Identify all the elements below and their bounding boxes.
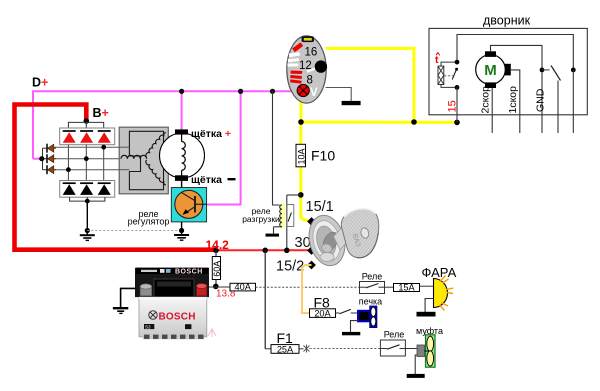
ground battery [113,308,128,313]
rectifier positive diode pack VD1-VD3 [60,128,115,145]
svg-text:M: M [484,62,497,79]
svg-text:BOSCH: BOSCH [159,312,196,323]
fuse 20A [310,308,336,318]
wire brush- to regulator [181,181,183,234]
wire rectifier negative bus [70,197,105,201]
wire D+ bus (magenta) [33,91,297,204]
svg-text:t: t [435,54,439,66]
node unload relay tap [284,248,290,254]
exciter diode bus [43,148,48,170]
fuse 25A [265,344,303,354]
wire exciter-diode feed (magenta to node) [33,158,41,160]
wire ground link (dotted) [87,230,181,232]
node D+/regulator junction [238,89,243,94]
rectifier negative diode pack VD4-VD6 [60,181,115,198]
rotor (field winding) [160,133,205,178]
node D+/relay-coil junction [270,89,275,94]
wiper thermo relay coil [438,62,456,87]
wire motor 2скор lead [491,88,493,133]
svg-text:60A: 60A [212,261,222,277]
node alternator ground [85,228,90,233]
svg-text:40A: 40A [235,282,252,292]
ground voltmeter [342,101,361,105]
wiper motor M [476,51,511,88]
ignition lock terminal 30 [307,246,316,255]
wire B+ thick red [15,105,219,250]
svg-text:Реле: Реле [362,272,383,282]
clutch fan [425,335,436,367]
svg-text:ФАРА: ФАРА [422,265,457,280]
clutch relay K2 [380,340,405,356]
svg-text:10A: 10A [296,148,306,164]
svg-text:BOSCH: BOSCH [175,269,203,276]
ground headlight [417,312,436,317]
rotor coil [182,142,186,171]
node D+/brush junction [179,89,184,94]
wire motor GND lead [491,45,543,133]
brush positive [175,129,188,134]
unload relay coil (реле разгрузки) [274,204,286,234]
node yellow-voltfeed [411,119,417,125]
ground heater [342,332,360,335]
voltmeter needle hub [315,60,327,72]
clutch fan hub [417,345,425,357]
svg-text:D+: D+ [32,76,48,90]
svg-text:15/1: 15/1 [306,199,334,215]
node yellow-wiper [454,120,460,126]
svg-text:печка: печка [359,296,382,306]
node F10/relay junction [298,192,304,198]
node negative bus center [85,199,90,204]
wire battery plus to 40A [207,286,230,288]
fuse F10 10A [296,144,306,167]
stator coil L2 [146,133,166,158]
wire phase columns [68,145,103,181]
ground clutch [407,374,425,378]
wire voltmeter ground [326,88,352,102]
ignition lock with key [304,209,379,270]
node battery plus [213,284,219,290]
charge warning lamp [297,84,309,96]
wiper unit box [429,28,587,114]
node yellow-F10 [298,119,304,125]
fuse 40A [230,282,256,292]
exciter diode VD7 [47,144,56,153]
node phase1-column3 [101,145,106,150]
svg-text:1скор: 1скор [507,86,519,114]
wire ignition feed yellow top [326,48,414,122]
svg-text:25A: 25A [277,344,294,354]
wire clutch ground [415,355,417,374]
transistor VT1 [175,190,207,218]
wiper speed switch [540,66,576,134]
fuse 60A [212,250,222,287]
wire motor 1скор lead [511,70,520,133]
svg-text:щётка: щётка [191,174,222,186]
wire heater ground [351,321,359,332]
svg-text:15/2: 15/2 [276,259,304,275]
wire unload relay coil feed [273,91,281,205]
wire phase row 3 [54,169,130,171]
connector star [304,345,310,353]
wire 25A to clutch relay (dotted) [310,348,381,350]
svg-text:30: 30 [295,235,311,251]
headlight lamp [434,276,454,311]
wire terminal 15 drop [456,87,458,123]
svg-text:GND: GND [535,88,547,112]
node exciter bus / D+ [39,156,44,161]
wire wiper top bus [457,35,573,70]
svg-text:S3: S3 [145,324,151,329]
svg-text:16: 16 [305,47,318,59]
wire F10 to 15/1 [301,167,308,221]
voltmeter scale mark red top [292,42,303,52]
wire relay to 15A [385,286,394,288]
wire to alternator ground [86,201,88,234]
exciter diode VD8 [47,154,56,163]
node 60A tap [213,248,219,254]
ground regulator [174,235,189,240]
voltmeter gauge [287,36,327,103]
wire phase stubs into stator [119,146,129,148]
voltmeter scale marks red low [290,71,302,84]
svg-text:Реле: Реле [384,330,405,340]
wire battery minus [121,288,139,307]
wire headlight ground [425,299,433,313]
battery Bosch [135,268,209,340]
wire 30 line red [218,249,312,251]
stator coil L1 [121,155,147,158]
wire voltmeter lamp drop [300,98,303,122]
unload relay contact [287,195,301,250]
svg-text:B+: B+ [93,106,109,120]
stator coil L3 [146,160,166,185]
svg-text:V: V [310,87,318,99]
exciter diode VD9 [47,165,56,174]
heater switch [336,309,359,313]
voltmeter needle [307,67,320,72]
svg-text:дворник: дворник [483,14,531,28]
ground alternator [80,235,95,240]
svg-text:щётка +: щётка + [191,128,231,140]
wire yellow to F10 [299,122,302,144]
svg-text:F10: F10 [311,148,335,164]
wire 40A to headlight relay (dashed) [256,286,360,288]
wire F1 feeder [264,250,266,348]
wire relay to clutch [405,348,417,350]
watermark arrow [208,329,216,337]
heater fan motor [358,306,377,328]
voltmeter scale marks white [289,52,300,57]
voltmeter top connector [302,36,315,42]
svg-text:15A: 15A [398,283,415,293]
svg-text:2скор: 2скор [479,86,491,114]
node B+ on rectifier bus [84,118,90,124]
wire 15A to headlight [420,285,434,287]
node regulator ground [179,228,184,233]
node phase3-column1 [66,167,71,172]
voltage regulator box [171,188,206,222]
svg-text:регулятор: регулятор [128,217,170,227]
svg-text:разгрузки: разгрузки [242,214,280,224]
wire rectifier positive bus [68,122,103,128]
stator winding block [119,127,168,194]
headlight relay K1 [360,282,385,294]
ground unload relay [266,234,280,237]
wire phase row 2 [54,158,124,160]
node F1 feeder tap [262,248,268,254]
ignition lock terminal 15/1 [307,217,316,226]
wire yellow bus [301,121,457,124]
svg-text:14.2: 14.2 [206,238,230,252]
svg-text:15: 15 [447,100,459,112]
node phase2-column2 [84,156,89,161]
fuse 15A [394,283,420,293]
brush negative [175,175,188,181]
ignition lock terminal 15/2 [307,261,316,270]
wiper relay contact [444,60,459,90]
svg-text:8: 8 [307,75,313,87]
wire phase row 1 [54,146,130,148]
wire 15/2 orange [302,265,312,313]
svg-text:20A: 20A [314,308,331,318]
